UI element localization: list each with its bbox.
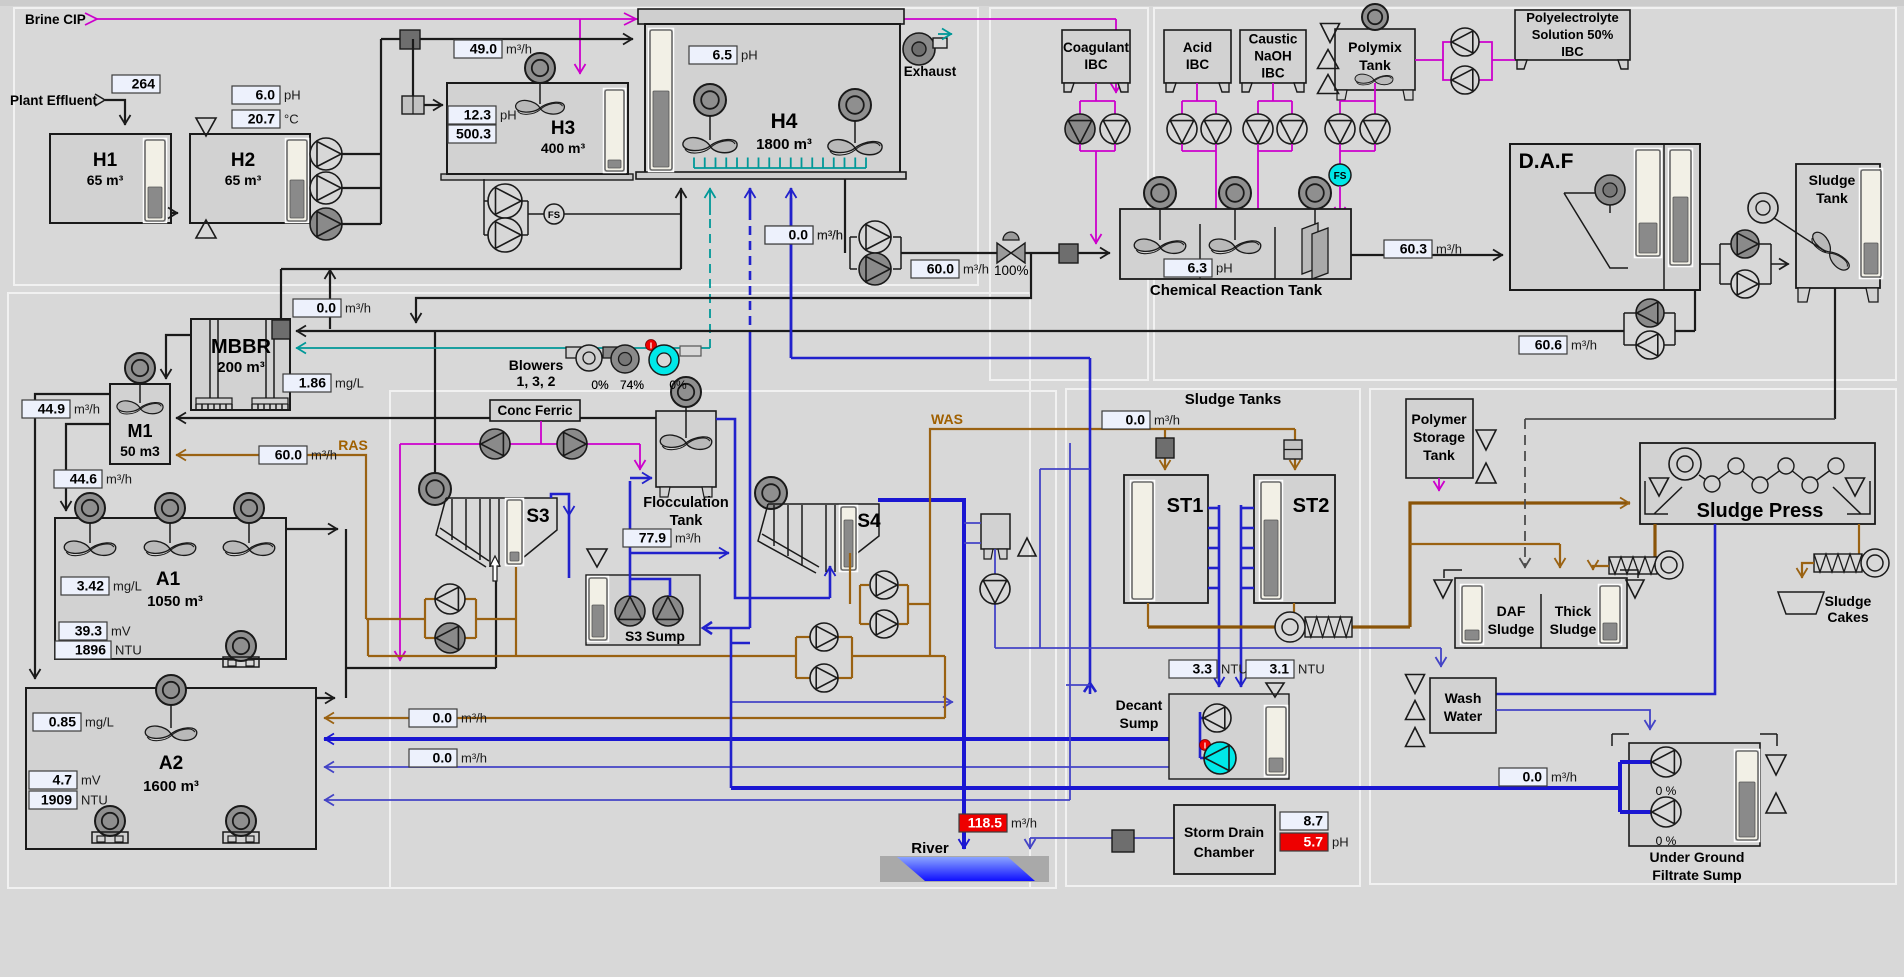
svg-text:0%: 0% [669, 378, 687, 392]
svg-text:0.0: 0.0 [433, 750, 453, 766]
svg-text:Conc Ferric: Conc Ferric [497, 403, 573, 418]
svg-text:Cakes: Cakes [1827, 609, 1868, 625]
svg-text:DAF: DAF [1497, 603, 1526, 619]
svg-text:mg/L: mg/L [113, 579, 142, 594]
svg-text:m³/h: m³/h [106, 472, 132, 487]
svg-text:H2: H2 [231, 150, 255, 171]
svg-text:IBC: IBC [1186, 57, 1210, 72]
svg-text:FS: FS [1334, 171, 1347, 182]
svg-text:Sludge: Sludge [1488, 621, 1535, 637]
svg-text:0.0: 0.0 [789, 227, 809, 243]
svg-text:0.0: 0.0 [433, 710, 453, 726]
svg-text:Plant Effluent: Plant Effluent [10, 93, 98, 108]
svg-text:65 m³: 65 m³ [225, 172, 262, 188]
svg-text:Sump: Sump [1120, 715, 1159, 731]
svg-text:Under Ground: Under Ground [1650, 849, 1745, 865]
svg-text:Tank: Tank [1816, 190, 1848, 206]
svg-text:60.0: 60.0 [275, 447, 302, 463]
svg-text:WAS: WAS [931, 411, 963, 427]
svg-text:Flocculation: Flocculation [643, 495, 728, 511]
svg-text:Coagulant: Coagulant [1063, 40, 1130, 55]
svg-text:NaOH: NaOH [1254, 49, 1292, 64]
svg-text:1.86: 1.86 [299, 375, 326, 391]
svg-text:Solution 50%: Solution 50% [1532, 27, 1614, 42]
svg-text:RAS: RAS [338, 437, 368, 453]
svg-text:1, 3, 2: 1, 3, 2 [517, 373, 556, 389]
svg-text:FS: FS [548, 210, 560, 221]
svg-text:pH: pH [741, 48, 758, 63]
svg-text:H1: H1 [93, 150, 118, 171]
svg-text:Thick: Thick [1555, 603, 1592, 619]
svg-text:Decant: Decant [1116, 697, 1163, 713]
svg-text:m³/h: m³/h [345, 301, 371, 316]
svg-text:12.3: 12.3 [464, 107, 491, 123]
svg-text:°C: °C [284, 112, 299, 127]
svg-text:6.5: 6.5 [713, 47, 733, 63]
svg-text:Storage: Storage [1413, 429, 1465, 445]
svg-text:1600 m³: 1600 m³ [143, 778, 199, 795]
svg-text:m³/h: m³/h [963, 262, 989, 277]
svg-text:100%: 100% [994, 263, 1029, 278]
svg-text:I: I [650, 342, 652, 351]
svg-text:20.7: 20.7 [248, 111, 275, 127]
svg-text:65 m³: 65 m³ [87, 172, 124, 188]
svg-text:0.0: 0.0 [317, 300, 337, 316]
svg-text:IBC: IBC [1261, 66, 1285, 81]
svg-text:S4: S4 [857, 511, 881, 532]
svg-text:m³/h: m³/h [1154, 413, 1180, 428]
svg-text:Chamber: Chamber [1194, 844, 1255, 860]
svg-text:Chemical Reaction Tank: Chemical Reaction Tank [1150, 282, 1323, 299]
svg-text:60.3: 60.3 [1400, 241, 1427, 257]
svg-text:m³/h: m³/h [675, 531, 701, 546]
svg-text:Acid: Acid [1183, 40, 1212, 55]
svg-text:1050 m³: 1050 m³ [147, 593, 203, 610]
svg-text:D.A.F: D.A.F [1519, 150, 1574, 173]
svg-text:ST2: ST2 [1293, 495, 1330, 517]
svg-text:6.0: 6.0 [256, 87, 276, 103]
svg-text:m³/h: m³/h [461, 751, 487, 766]
svg-text:Water: Water [1444, 708, 1483, 724]
svg-text:NTU: NTU [1221, 662, 1248, 677]
svg-text:m³/h: m³/h [1551, 770, 1577, 785]
svg-text:NTU: NTU [1298, 662, 1325, 677]
svg-text:pH: pH [284, 88, 301, 103]
svg-text:NTU: NTU [115, 643, 142, 658]
svg-text:74%: 74% [620, 378, 644, 392]
svg-text:A1: A1 [156, 569, 181, 590]
svg-text:1800 m³: 1800 m³ [756, 136, 812, 153]
svg-text:6.3: 6.3 [1188, 260, 1208, 276]
svg-text:Sludge Tanks: Sludge Tanks [1185, 391, 1281, 408]
svg-text:3.42: 3.42 [77, 578, 104, 594]
svg-text:60.6: 60.6 [1535, 337, 1562, 353]
svg-text:50 m3: 50 m3 [120, 443, 160, 459]
svg-text:Sludge: Sludge [1825, 593, 1872, 609]
svg-text:Polymix: Polymix [1348, 39, 1402, 55]
svg-text:Polyelectrolyte: Polyelectrolyte [1526, 10, 1619, 25]
svg-text:400 m³: 400 m³ [541, 140, 586, 156]
svg-text:H4: H4 [771, 110, 798, 133]
svg-text:Storm Drain: Storm Drain [1184, 824, 1264, 840]
svg-text:3.3: 3.3 [1193, 661, 1213, 677]
svg-text:200 m³: 200 m³ [217, 359, 265, 376]
svg-text:Caustic: Caustic [1249, 32, 1298, 47]
svg-text:60.0: 60.0 [927, 261, 954, 277]
svg-text:River: River [911, 840, 949, 857]
svg-text:IBC: IBC [1561, 44, 1584, 59]
svg-text:0 %: 0 % [1656, 834, 1677, 848]
svg-text:NTU: NTU [81, 793, 108, 808]
svg-text:Tank: Tank [1423, 447, 1455, 463]
svg-text:Polymer: Polymer [1411, 411, 1467, 427]
svg-text:mg/L: mg/L [85, 715, 114, 730]
svg-text:Sludge: Sludge [1809, 172, 1856, 188]
svg-text:0 %: 0 % [1656, 784, 1677, 798]
svg-text:44.9: 44.9 [38, 401, 65, 417]
svg-text:Brine CIP: Brine CIP [25, 12, 86, 27]
svg-text:1896: 1896 [75, 642, 106, 658]
svg-text:264: 264 [132, 76, 156, 92]
svg-text:Tank: Tank [1359, 57, 1391, 73]
svg-text:Filtrate Sump: Filtrate Sump [1652, 867, 1741, 883]
svg-text:0.85: 0.85 [49, 714, 76, 730]
svg-text:77.9: 77.9 [639, 530, 666, 546]
svg-text:5.7: 5.7 [1304, 834, 1324, 850]
svg-text:Sludge Press: Sludge Press [1697, 500, 1824, 522]
svg-text:H3: H3 [551, 118, 575, 139]
svg-text:M1: M1 [127, 421, 152, 441]
svg-text:39.3: 39.3 [75, 623, 102, 639]
svg-text:S3 Sump: S3 Sump [625, 628, 685, 644]
svg-text:0.0: 0.0 [1126, 412, 1146, 428]
svg-text:ST1: ST1 [1167, 495, 1204, 517]
svg-text:m³/h: m³/h [311, 448, 337, 463]
svg-text:1909: 1909 [41, 792, 72, 808]
svg-text:49.0: 49.0 [470, 41, 497, 57]
svg-text:m³/h: m³/h [1011, 816, 1037, 831]
svg-text:mV: mV [81, 773, 101, 788]
svg-text:8.7: 8.7 [1304, 813, 1324, 829]
svg-text:m³/h: m³/h [1436, 242, 1462, 257]
svg-text:m³/h: m³/h [506, 42, 532, 57]
svg-text:4.7: 4.7 [53, 772, 73, 788]
svg-text:pH: pH [1332, 835, 1349, 850]
svg-text:Exhaust: Exhaust [904, 64, 957, 79]
svg-text:Tank: Tank [670, 513, 704, 529]
svg-text:Wash: Wash [1445, 690, 1482, 706]
svg-text:S3: S3 [526, 506, 549, 527]
svg-text:118.5: 118.5 [968, 815, 1002, 831]
svg-text:0.0: 0.0 [1523, 769, 1543, 785]
svg-text:pH: pH [500, 108, 517, 123]
svg-text:m³/h: m³/h [817, 228, 843, 243]
svg-text:mg/L: mg/L [335, 376, 364, 391]
svg-text:A2: A2 [159, 753, 183, 774]
svg-text:pH: pH [1216, 261, 1233, 276]
svg-text:Sludge: Sludge [1550, 621, 1597, 637]
svg-text:m³/h: m³/h [74, 402, 100, 417]
svg-text:m³/h: m³/h [1571, 338, 1597, 353]
svg-text:500.3: 500.3 [456, 126, 491, 142]
svg-text:m³/h: m³/h [461, 711, 487, 726]
svg-text:IBC: IBC [1084, 57, 1108, 72]
svg-text:0%: 0% [591, 378, 609, 392]
svg-text:mV: mV [111, 624, 131, 639]
svg-text:Blowers: Blowers [509, 357, 564, 373]
svg-text:3.1: 3.1 [1270, 661, 1290, 677]
svg-text:44.6: 44.6 [70, 471, 97, 487]
svg-text:MBBR: MBBR [211, 336, 272, 358]
